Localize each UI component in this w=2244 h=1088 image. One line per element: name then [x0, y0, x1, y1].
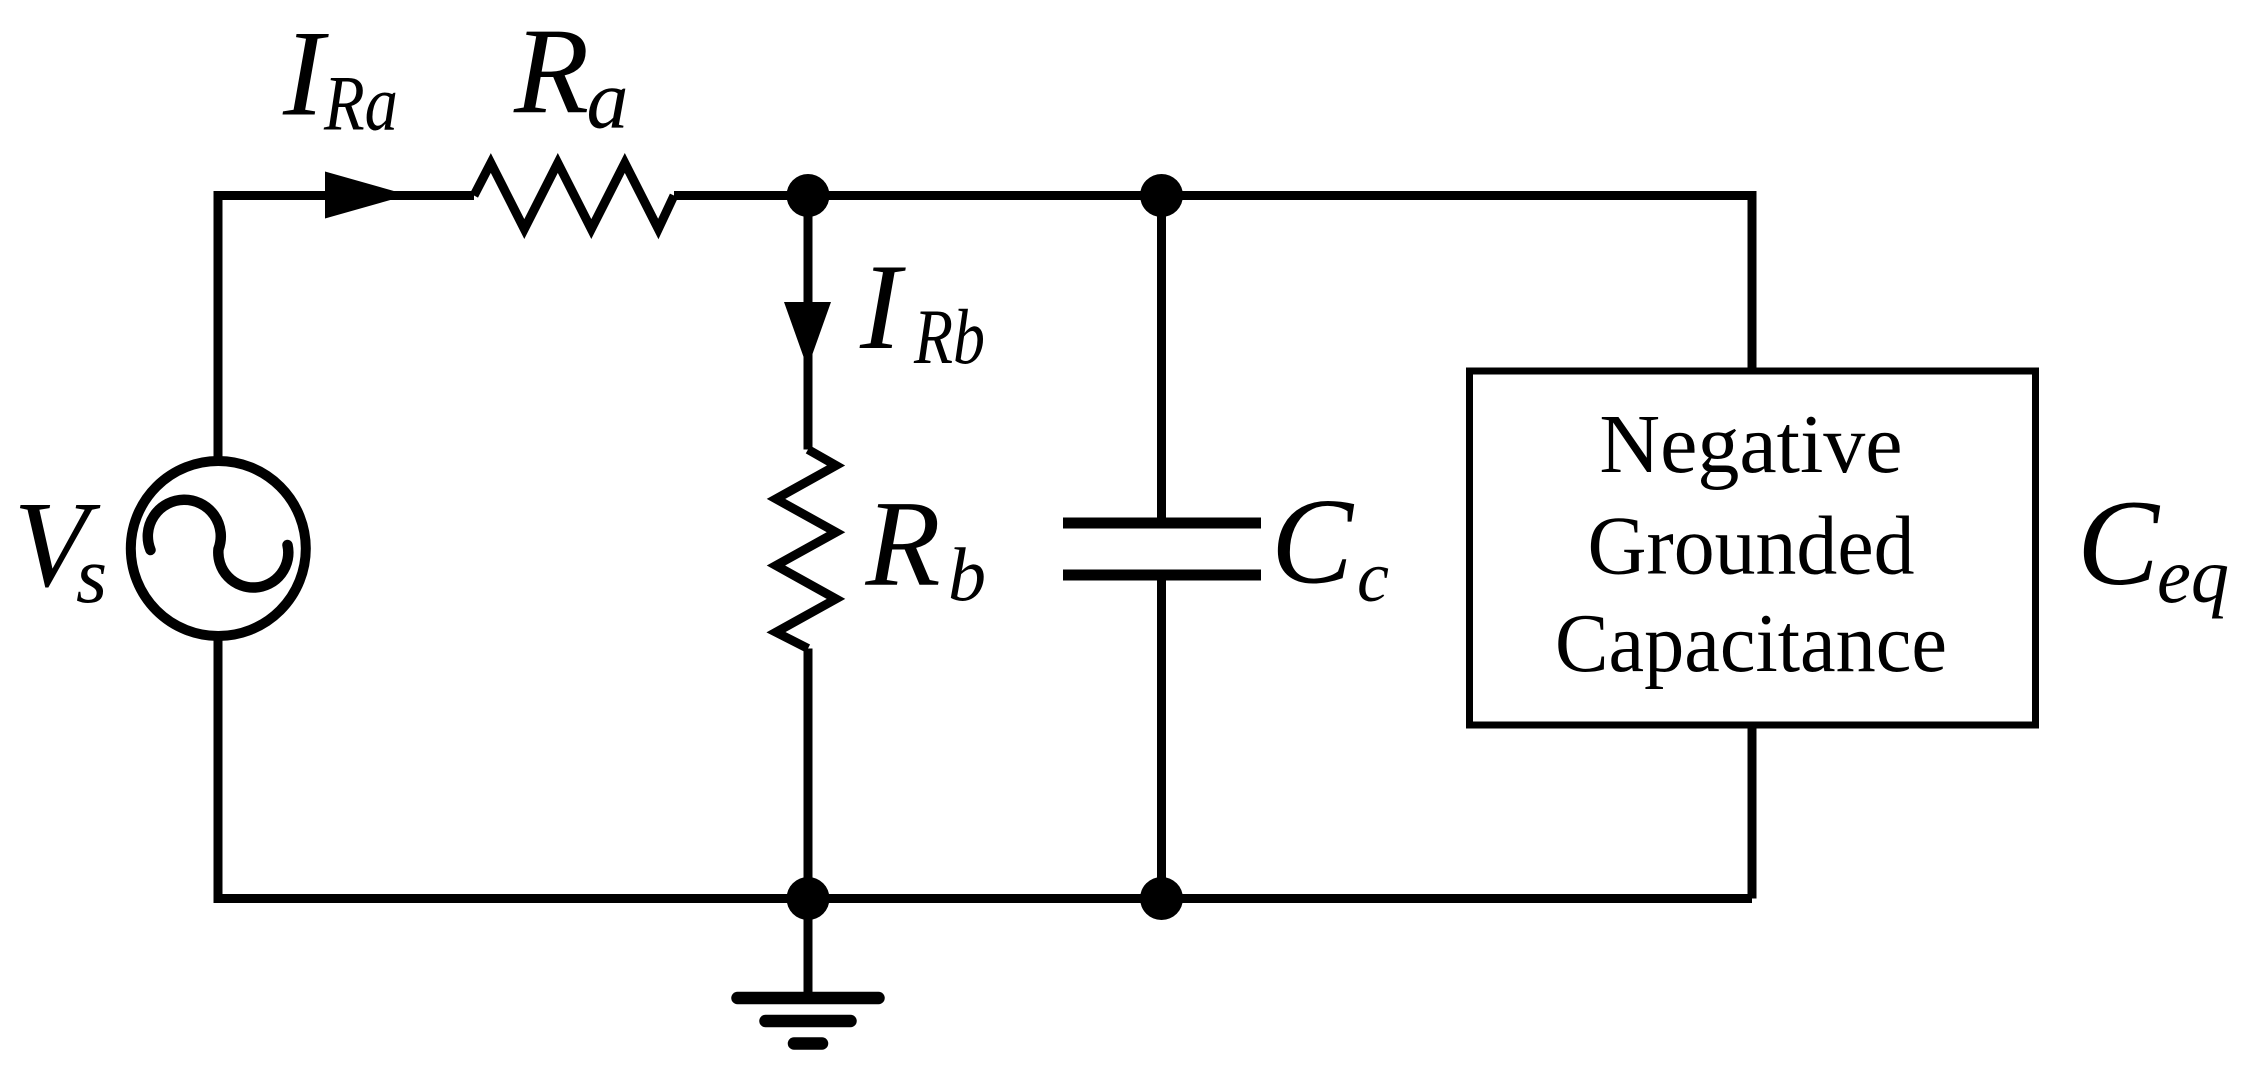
svg-text:C: C: [1271, 473, 1355, 610]
svg-text:Negative: Negative: [1599, 398, 1902, 491]
wire: node A down to Rb top: [804, 196, 813, 450]
node D (bottom junction for Cc): [1140, 877, 1183, 920]
svg-text:b: b: [948, 534, 986, 618]
svg-text:eq: eq: [2157, 532, 2229, 619]
ground stub: [804, 899, 813, 998]
svg-text:Rb: Rb: [913, 293, 985, 380]
svg-text:I: I: [282, 5, 329, 142]
capacitor Cc top plate: [1063, 518, 1261, 529]
arrow IRa current direction on top wire: [325, 172, 408, 219]
wire: capacitor bottom plate down to bottom wire: [1157, 575, 1166, 899]
label R_b: [865, 475, 987, 618]
svg-text:C: C: [2077, 474, 2161, 611]
svg-text:I: I: [859, 238, 906, 375]
svg-text:Grounded: Grounded: [1588, 500, 1915, 593]
wire: Vs bottom to bottom-left corner, bottom horizontal wire: [218, 640, 1752, 899]
node C (top junction for Cc): [1140, 174, 1183, 217]
wire: top node 2 down to capacitor top plate: [1157, 196, 1166, 526]
voltage source Vs circle: [131, 461, 306, 636]
wire: left vertical + top-left horizontal segment: [218, 196, 474, 458]
svg-text:a: a: [587, 54, 629, 147]
label V_s: [14, 476, 108, 621]
wire: top horizontal from Ra to top-right corner, down to box top: [674, 196, 1752, 372]
svg-text:Capacitance: Capacitance: [1555, 597, 1947, 690]
box: Negative Grounded Capacitance block: [1470, 371, 2036, 725]
label I_Rb: [859, 238, 985, 380]
svg-text:R: R: [865, 475, 941, 612]
ground symbol bars: [738, 998, 879, 1044]
label C_c: [1271, 473, 1389, 618]
svg-text:Ra: Ra: [323, 60, 398, 147]
resistor Rb: [776, 450, 836, 649]
wire: box bottom down to bottom wire: [1748, 725, 1757, 899]
node B (bottom, ground junction): [787, 877, 830, 920]
label I_Ra: [282, 5, 398, 147]
arrow IRb current direction: [784, 302, 831, 368]
capacitor Cc bottom plate: [1063, 570, 1261, 581]
svg-text:R: R: [513, 3, 589, 140]
svg-text:s: s: [76, 532, 107, 620]
box text: [1555, 398, 1947, 690]
svg-text:c: c: [1357, 537, 1389, 617]
label C_eq: [2077, 474, 2229, 619]
label R_a: [513, 3, 629, 147]
resistor Ra: [474, 163, 674, 229]
node A (junction Ra / Rb): [787, 174, 830, 217]
sine wave inside Vs: [148, 500, 289, 588]
wire: Rb bottom down to bottom wire: [804, 649, 813, 900]
